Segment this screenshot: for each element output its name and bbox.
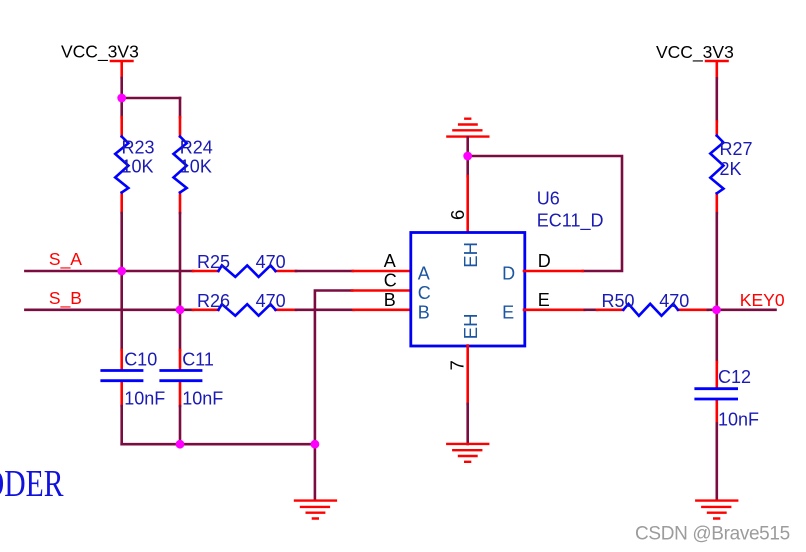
wire R23 upper <box>120 98 123 117</box>
junction rail x C vertical <box>311 440 320 449</box>
wire R23 lower to S_A <box>120 213 123 271</box>
pin D red stub <box>524 270 583 273</box>
svg-text:R26: R26 <box>197 291 230 311</box>
wire VCC right vertical <box>715 78 718 121</box>
wire E to R50 <box>585 308 597 311</box>
ground top center <box>447 119 488 137</box>
wire C10 upper <box>120 271 123 350</box>
svg-text:C11: C11 <box>182 349 214 369</box>
junction S_A x R23 column <box>117 267 126 276</box>
wire KEY0 junction to C12 <box>715 310 718 362</box>
svg-text:EH: EH <box>460 314 481 340</box>
svg-text:2K: 2K <box>720 159 742 179</box>
junction at VCC left <box>117 94 126 103</box>
svg-text:R24: R24 <box>180 137 213 157</box>
svg-text:A: A <box>384 251 396 271</box>
svg-text:10K: 10K <box>122 156 154 176</box>
wire D net top <box>468 156 622 271</box>
capacitor C12 <box>696 362 759 430</box>
svg-text:R23: R23 <box>122 137 155 157</box>
svg-text:S_A: S_A <box>49 249 82 270</box>
ground bottom center <box>295 501 336 519</box>
wire A row middle <box>296 270 353 273</box>
wire R50 to KEY0 column <box>708 308 776 311</box>
pin 6 red stub <box>466 176 469 233</box>
svg-text:7: 7 <box>446 360 467 370</box>
svg-text:R50: R50 <box>602 291 635 311</box>
svg-text:R25: R25 <box>197 252 230 272</box>
svg-text:470: 470 <box>256 252 286 272</box>
wire C12 to ground <box>715 423 718 500</box>
svg-text:10nF: 10nF <box>182 389 223 409</box>
svg-text:EC11_D: EC11_D <box>537 211 604 232</box>
wire R24 upper <box>179 98 182 117</box>
svg-text:C10: C10 <box>124 349 157 369</box>
resistor R26 <box>193 291 296 316</box>
wire S_B left <box>25 308 193 311</box>
svg-text:C: C <box>418 283 431 303</box>
pin C red stub <box>352 289 411 292</box>
svg-text:B: B <box>384 290 396 310</box>
wire pin 7 to ground <box>466 404 469 444</box>
wire ground stem to junction <box>466 138 469 177</box>
svg-text:470: 470 <box>659 291 689 311</box>
capacitor C10 <box>102 349 165 408</box>
resistor R23 <box>115 117 154 213</box>
svg-text:U6: U6 <box>537 189 560 209</box>
svg-text:6: 6 <box>447 210 468 220</box>
wire C11 upper <box>179 310 182 350</box>
pin A red stub <box>353 270 411 273</box>
svg-text:E: E <box>538 290 550 310</box>
svg-text:B: B <box>418 302 430 322</box>
resistor R27 <box>710 122 752 214</box>
svg-text:E: E <box>502 302 514 322</box>
pin 7 red stub <box>466 346 469 405</box>
wire C corner <box>315 291 352 445</box>
svg-text:10nF: 10nF <box>124 389 165 409</box>
pin E red stub <box>524 308 585 311</box>
wire rail to ground <box>314 444 317 500</box>
junction S_B x R24 column <box>176 305 185 314</box>
resistor R24 <box>174 117 213 213</box>
svg-text:C12: C12 <box>718 367 751 387</box>
svg-text:10nF: 10nF <box>718 410 759 430</box>
svg-text:S_B: S_B <box>49 288 82 309</box>
svg-text:R27: R27 <box>720 139 753 159</box>
svg-text:D: D <box>502 264 515 284</box>
wire VCC left vertical <box>120 78 123 98</box>
resistor R50 <box>597 291 708 316</box>
svg-text:10K: 10K <box>180 156 212 176</box>
wire bottom rail <box>122 443 315 446</box>
svg-text:VCC_3V3: VCC_3V3 <box>61 42 139 63</box>
wire R24 lower to S_B <box>179 213 182 310</box>
junction rail x C11 <box>176 440 185 449</box>
svg-text:CSDN @Brave515: CSDN @Brave515 <box>635 524 790 545</box>
ground below pin 7 <box>447 444 488 462</box>
svg-text:ODER: ODER <box>0 464 64 505</box>
svg-text:KEY0: KEY0 <box>740 290 785 310</box>
svg-text:470: 470 <box>256 291 286 311</box>
wire top-left horizontal to R24 column <box>122 97 180 100</box>
svg-text:A: A <box>418 264 430 284</box>
wire C11 lower <box>179 406 182 444</box>
wire C10 lower <box>120 406 123 444</box>
resistor R25 <box>193 252 296 277</box>
svg-text:EH: EH <box>460 242 481 268</box>
pin B red stub <box>354 308 411 311</box>
power symbol VCC_3V3 right <box>656 42 734 78</box>
svg-text:C: C <box>384 271 397 291</box>
op-amp U6 component box <box>411 189 604 347</box>
wire S_A left <box>25 270 193 273</box>
capacitor C11 <box>161 349 223 408</box>
wire R27 to KEY0 junction <box>715 213 718 310</box>
ground bottom right <box>696 501 737 519</box>
wire B row middle <box>296 308 354 311</box>
junction top center <box>463 152 472 161</box>
junction KEY0 <box>712 305 721 314</box>
power symbol VCC_3V3 left <box>61 42 139 78</box>
svg-text:D: D <box>538 251 551 271</box>
title text ODER <box>0 464 64 505</box>
